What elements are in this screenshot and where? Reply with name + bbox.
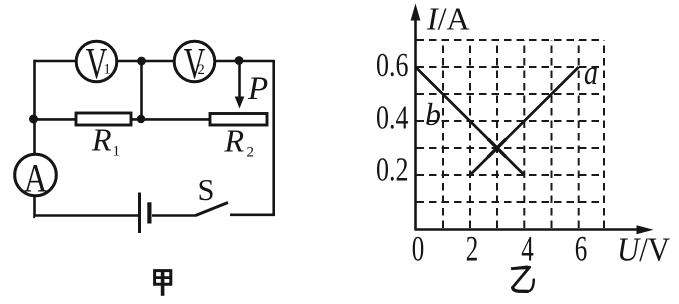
label a xyxy=(584,53,598,92)
wire left node to R1 xyxy=(34,118,77,121)
wire bottom rail to battery xyxy=(34,214,139,217)
wire R1 to R2 xyxy=(131,118,210,121)
y tick label 0.6 xyxy=(376,47,409,84)
label R2 xyxy=(224,123,255,161)
label U/V xyxy=(617,232,670,269)
svg-text:P: P xyxy=(247,71,268,107)
label S xyxy=(198,173,215,207)
wire battery to switch xyxy=(152,214,196,217)
svg-text:6: 6 xyxy=(575,229,588,269)
ammeter A xyxy=(15,154,57,200)
I-U line a xyxy=(470,67,579,175)
y-axis I/A xyxy=(411,4,421,230)
svg-text:A: A xyxy=(24,156,48,201)
wire left rail vertical xyxy=(33,60,36,119)
svg-text:2: 2 xyxy=(466,229,479,269)
svg-text:R: R xyxy=(91,122,112,158)
svg-text:0.4: 0.4 xyxy=(376,100,409,137)
svg-text:U/V: U/V xyxy=(617,232,670,269)
wire node A down to node C xyxy=(140,61,143,119)
label yi (Chinese caption of graph) xyxy=(511,266,534,292)
label R1 xyxy=(91,122,120,160)
svg-text:R: R xyxy=(224,123,245,159)
y tick label 0.4 xyxy=(376,100,409,137)
svg-text:b: b xyxy=(425,96,441,132)
switch S lever xyxy=(196,203,229,216)
voltmeter V1 xyxy=(76,39,117,88)
svg-text:I/A: I/A xyxy=(426,1,470,37)
svg-text:1: 1 xyxy=(113,144,121,160)
x tick label 0 xyxy=(412,229,425,269)
svg-text:2: 2 xyxy=(247,145,255,161)
node C (junction dot right of R1) xyxy=(137,115,145,123)
svg-text:0.2: 0.2 xyxy=(376,152,409,189)
x tick label 2 xyxy=(466,229,479,269)
crossing emphasis of lines a and b xyxy=(488,139,506,157)
x tick label 4 xyxy=(521,229,534,269)
resistor R1 xyxy=(76,113,131,125)
grid dashed lines xyxy=(417,40,605,228)
wire node B to top-right corner and right rail xyxy=(242,61,274,215)
svg-text:0.6: 0.6 xyxy=(376,47,409,84)
label P xyxy=(247,71,268,107)
wire V2 to node B xyxy=(215,60,236,63)
wire top-left horizontal to V1 xyxy=(34,60,77,63)
y tick label 0.2 xyxy=(376,152,409,189)
svg-text:a: a xyxy=(584,53,598,92)
svg-text:1: 1 xyxy=(104,62,111,78)
node B (junction dot top-right) xyxy=(235,56,244,65)
svg-text:4: 4 xyxy=(521,229,534,269)
node D (junction dot left rail) xyxy=(29,115,38,124)
voltmeter V2 xyxy=(174,39,215,88)
wire left rail to ammeter xyxy=(33,119,36,155)
battery cell xyxy=(140,193,150,234)
label b xyxy=(425,96,441,132)
wire switch to bottom-right corner xyxy=(230,214,275,217)
wire node A to V2 xyxy=(144,60,175,63)
x-axis U/V xyxy=(415,225,654,234)
label jia (Chinese caption of circuit) xyxy=(155,270,171,296)
label I/A xyxy=(426,1,470,37)
x tick label 6 xyxy=(575,229,588,269)
svg-text:0: 0 xyxy=(412,229,425,269)
I-U line b xyxy=(416,67,525,175)
wire V1 to node A xyxy=(117,60,139,63)
node A (junction dot top-middle) xyxy=(137,57,146,66)
slider arrow P of rheostat xyxy=(235,64,245,109)
svg-text:S: S xyxy=(198,173,215,207)
svg-text:2: 2 xyxy=(198,62,205,78)
wire ammeter to bottom-left corner xyxy=(33,196,36,217)
resistor R2 (rheostat body) xyxy=(210,114,267,126)
